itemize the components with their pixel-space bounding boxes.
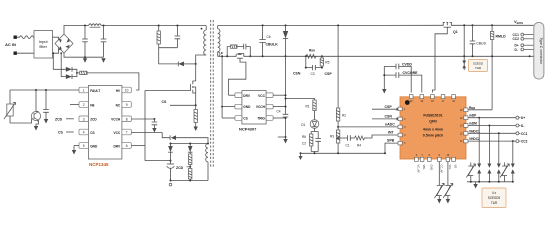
U1 pin 2 FB bbox=[70, 102, 95, 108]
svg-text:C2: C2 bbox=[302, 142, 306, 146]
svg-text:VCCH: VCCH bbox=[111, 118, 121, 122]
wire CVDD gnd bbox=[383, 66, 385, 89]
U2 label NCP4307 bbox=[239, 126, 257, 131]
connector pin D- top bbox=[515, 48, 534, 52]
label INT bbox=[388, 131, 395, 135]
svg-text:2: 2 bbox=[83, 103, 85, 107]
net label ZCD arrow bbox=[176, 166, 191, 170]
resistor R3 bbox=[330, 130, 340, 153]
diode D-clamp bbox=[178, 62, 184, 67]
ground arrow cap1 bbox=[83, 56, 87, 63]
ESD diode pair column CC2 bbox=[511, 140, 515, 182]
svg-text:R5: R5 bbox=[325, 61, 329, 65]
ground arrow C4 bbox=[283, 137, 287, 144]
FAULT line bbox=[10, 89, 79, 91]
op-amp U1 NCP1345 body bbox=[88, 86, 122, 160]
aux rectifier top wire bbox=[170, 143, 210, 162]
U1 pin 5 GND bbox=[74, 143, 98, 149]
connector circle D- bbox=[516, 124, 524, 128]
svg-text:R4: R4 bbox=[357, 144, 361, 148]
resistor R5 bbox=[315, 56, 329, 67]
varistor RV1 bbox=[435, 162, 445, 204]
wire diodes join bbox=[72, 69, 80, 76]
transistor Q2 sync MOSFET bbox=[229, 53, 248, 95]
svg-text:D-: D- bbox=[515, 48, 518, 52]
U2 pin 2 GND bbox=[221, 104, 251, 109]
svg-text:CVCORE: CVCORE bbox=[403, 71, 419, 75]
wire SPB bbox=[384, 139, 400, 155]
U3 bottom pin stubs bbox=[415, 157, 456, 161]
net label CSP bbox=[321, 67, 332, 76]
svg-text:CS: CS bbox=[162, 100, 168, 104]
gate drive wire DRV bbox=[145, 91, 191, 161]
wire transformer primary bottom to drain bbox=[196, 55, 206, 81]
wire VCC to aux diode bbox=[162, 133, 170, 138]
svg-text:T&R: T&R bbox=[491, 201, 498, 205]
svg-text:SZESD9: SZESD9 bbox=[488, 196, 501, 200]
svg-text:Q1: Q1 bbox=[453, 30, 458, 34]
ground arrow C-VCCH bbox=[152, 128, 156, 133]
svg-text:VHDC2: VHDC2 bbox=[469, 137, 480, 141]
svg-text:3: 3 bbox=[83, 118, 85, 122]
snubber C-Q2 bbox=[237, 44, 251, 58]
bulk capacitor C-in1 bbox=[82, 26, 88, 58]
svg-text:VC_AF: VC_AF bbox=[416, 165, 420, 174]
connector circle D+ bbox=[516, 116, 525, 120]
wire Q3 collector to FAULT bbox=[35, 89, 39, 112]
U2 pin 4 TRIG bbox=[257, 116, 286, 121]
svg-text:4mm x 4mm: 4mm x 4mm bbox=[423, 128, 443, 132]
ESD part box top bbox=[469, 60, 488, 72]
snubber bottom wire bbox=[159, 47, 178, 49]
opto bottom split bbox=[311, 128, 318, 131]
label C3 bbox=[311, 72, 315, 76]
bulk capacitor C-in2 bbox=[101, 26, 107, 58]
wire AC bottom to filter bbox=[17, 52, 34, 54]
snubber capacitor C-clamp bbox=[175, 26, 181, 48]
svg-text:TRIG: TRIG bbox=[257, 117, 265, 121]
resistor R2 bbox=[336, 108, 346, 130]
wire VHDC1 to CC1 bbox=[468, 129, 516, 133]
svg-text:ZCD: ZCD bbox=[90, 118, 97, 122]
NTC thermistor RT1 bbox=[4, 90, 16, 123]
VBUS rail right bbox=[454, 24, 534, 26]
wire diode column to NCP4307 bbox=[285, 56, 287, 137]
VBUS divider tap bbox=[337, 24, 339, 108]
capacitor C2 bbox=[302, 132, 321, 154]
resistor R-zcd2 bbox=[189, 167, 192, 181]
svg-text:NCP1345: NCP1345 bbox=[89, 162, 109, 167]
U3 pin numbers bbox=[404, 101, 463, 157]
svg-text:VHDC1: VHDC1 bbox=[469, 129, 480, 133]
ground arrow bus bbox=[299, 153, 303, 160]
U1 pin 10 HV bbox=[116, 87, 132, 93]
connector pin CC1 top bbox=[513, 33, 534, 37]
input filter block bbox=[34, 31, 53, 59]
wire nADC bbox=[338, 123, 400, 127]
svg-text:DRV: DRV bbox=[243, 94, 251, 98]
wire filter to bridge top bbox=[53, 37, 59, 40]
aux bottom wire bbox=[171, 180, 209, 182]
U1 pin 6 DRV bbox=[114, 143, 145, 149]
U1 pin 4 CS bbox=[79, 129, 95, 135]
fuse F1 bbox=[17, 36, 34, 39]
HV diode D2 bbox=[66, 74, 72, 79]
net label Rup bbox=[468, 106, 492, 110]
U3 top pin stubs bbox=[409, 95, 455, 99]
sense resistor R-CS bbox=[194, 105, 197, 126]
svg-text:C3: C3 bbox=[311, 72, 315, 76]
connector pin D+ top bbox=[515, 44, 534, 48]
ESD part box bottom bbox=[482, 188, 506, 208]
svg-text:CSN: CSN bbox=[293, 72, 301, 76]
HV startup resistor R-HV bbox=[80, 71, 87, 74]
diode D-aux1 bbox=[168, 143, 173, 165]
ground arrow CV caps bbox=[382, 89, 386, 94]
varistor RV4 bbox=[500, 163, 509, 182]
svg-text:CC2: CC2 bbox=[513, 37, 520, 41]
net label ZCD left bbox=[55, 117, 74, 121]
GND bus secondary bbox=[300, 152, 386, 154]
HV tap wire 1 bbox=[52, 52, 65, 69]
wire VHDC2 to CC2 bbox=[468, 137, 516, 141]
svg-text:mDM: mDM bbox=[469, 122, 477, 126]
svg-text:CS: CS bbox=[243, 117, 247, 121]
wire opto supply bbox=[285, 98, 315, 101]
transistor Q5 primary MOSFET bbox=[191, 81, 196, 105]
svg-text:D-: D- bbox=[521, 124, 524, 128]
svg-text:CBUS: CBUS bbox=[476, 41, 486, 45]
label Rsn bbox=[309, 49, 315, 53]
Type C connector J1 bbox=[534, 22, 544, 79]
svg-text:C4: C4 bbox=[277, 110, 281, 114]
wire ESD top drop bbox=[462, 24, 466, 70]
diode D-aux2 bbox=[188, 143, 193, 155]
snubber resistor R-clamp bbox=[157, 26, 160, 48]
svg-text:R6: R6 bbox=[302, 135, 306, 139]
svg-text:VBL: VBL bbox=[422, 165, 426, 170]
svg-text:VCL: VCL bbox=[448, 165, 452, 171]
U1 pin 3 ZCD bbox=[79, 116, 97, 122]
svg-text:R1: R1 bbox=[306, 105, 310, 109]
transformer T1 core bbox=[211, 20, 214, 168]
svg-text:CSP: CSP bbox=[385, 105, 393, 109]
svg-text:CC_AF: CC_AF bbox=[439, 165, 443, 174]
sense resistor Rsn bbox=[305, 54, 323, 58]
svg-text:filter: filter bbox=[39, 44, 47, 49]
svg-text:1: 1 bbox=[83, 89, 85, 93]
wire NTC to Q3 base bbox=[10, 119, 32, 124]
node bridge/cap1 bbox=[84, 25, 86, 27]
DC- rail bbox=[64, 53, 104, 57]
U1 label NCP1345 bbox=[89, 162, 109, 167]
capacitor CVDD bbox=[384, 63, 412, 93]
diode D-vcc bbox=[170, 135, 176, 140]
bridge rectifier BR1 bbox=[55, 34, 73, 53]
svg-text:CSP: CSP bbox=[325, 72, 333, 76]
wire diode to aux winding top bbox=[176, 138, 208, 144]
HV diode D1 bbox=[66, 67, 72, 72]
wire mDP to D+ bbox=[468, 114, 516, 118]
U1 pin 7 VCC bbox=[113, 129, 162, 135]
svg-text:CC1: CC1 bbox=[521, 132, 528, 136]
svg-text:SPB: SPB bbox=[387, 139, 395, 143]
U1 pin 1 FAULT bbox=[79, 87, 100, 93]
ground arrow C-fault bbox=[44, 119, 48, 124]
AC terminal top bbox=[14, 36, 17, 39]
optocoupler O1 bbox=[301, 120, 319, 129]
net label CSN bbox=[293, 67, 307, 76]
capacitor C4 bbox=[277, 110, 289, 139]
secondary VBUS rail bbox=[218, 24, 441, 26]
svg-text:NC: NC bbox=[116, 103, 121, 107]
net label CSN chip bbox=[372, 115, 400, 121]
net label CS left bbox=[58, 131, 74, 135]
U2 pin 5 VCCH bbox=[256, 104, 287, 109]
svg-text:Type C connector: Type C connector bbox=[539, 38, 543, 65]
resistor R-zcd1 bbox=[189, 154, 192, 167]
svg-text:FAULT: FAULT bbox=[90, 89, 100, 93]
svg-text:CS: CS bbox=[90, 131, 94, 135]
ESD ground bus bbox=[467, 181, 514, 183]
resistor R4 bbox=[355, 135, 401, 148]
svg-text:GND: GND bbox=[243, 105, 251, 109]
varistor RV3 bbox=[466, 163, 475, 182]
AC IN label bbox=[5, 42, 16, 47]
resistor RMLD bbox=[490, 24, 506, 110]
svg-text:VBUS: VBUS bbox=[514, 19, 523, 25]
node C1R4 tap bbox=[337, 137, 347, 139]
svg-text:R2: R2 bbox=[342, 114, 346, 118]
svg-text:9: 9 bbox=[126, 103, 128, 107]
svg-text:GND: GND bbox=[429, 165, 433, 171]
secondary GND rail left bbox=[218, 55, 233, 57]
node divider mid bbox=[337, 126, 339, 128]
U3 bottom pin labels bbox=[416, 165, 457, 174]
svg-text:CBULK: CBULK bbox=[266, 43, 279, 47]
net label CSP chip bbox=[372, 105, 400, 111]
svg-text:R3: R3 bbox=[330, 135, 334, 139]
HV tap wire 2 bbox=[60, 52, 66, 76]
op-amp U2 NCP4307 body bbox=[242, 91, 266, 125]
EMI choke L1 bbox=[89, 24, 102, 27]
node cap2 top bbox=[103, 25, 105, 27]
wire clamp to diode bbox=[159, 48, 179, 64]
svg-text:Rsn: Rsn bbox=[309, 49, 315, 53]
capacitor CBULK bbox=[259, 24, 278, 57]
ground arrow Q3 emitter bbox=[34, 121, 39, 131]
ground arrow U1 GND bbox=[72, 146, 76, 155]
wire diode to drain bbox=[184, 63, 197, 65]
capacitor C-VCCH bbox=[152, 118, 158, 128]
capacitor C1 bbox=[346, 135, 355, 147]
transistor Q3 bbox=[31, 111, 40, 122]
snubber R-Q2 bbox=[226, 45, 237, 57]
svg-text:FB: FB bbox=[90, 103, 95, 107]
svg-text:Rup: Rup bbox=[469, 106, 475, 110]
svg-text:VCC: VCC bbox=[113, 131, 120, 135]
svg-text:7: 7 bbox=[126, 131, 128, 135]
svg-text:NCP4307: NCP4307 bbox=[239, 126, 257, 131]
FUSB15101 U3 body bbox=[400, 97, 466, 159]
ground arrow R-CS bbox=[194, 127, 198, 132]
svg-text:CS: CS bbox=[58, 131, 64, 135]
wire bridge top to DC+ rail bbox=[64, 26, 85, 35]
svg-text:QFN: QFN bbox=[429, 120, 437, 124]
DC+ rail choke to transformer bbox=[101, 25, 206, 27]
connector pin CC2 top bbox=[513, 37, 534, 41]
svg-text:ZCD: ZCD bbox=[55, 117, 63, 121]
transformer T1 aux winding bbox=[206, 144, 208, 181]
varistor RV2 bbox=[443, 162, 453, 204]
label VBUS bbox=[514, 19, 523, 25]
svg-text:0.5mm pitch: 0.5mm pitch bbox=[423, 134, 443, 138]
wire filter to bridge bottom bbox=[53, 47, 59, 53]
transformer T1 secondary winding bbox=[218, 26, 223, 57]
U1 pin 8 VCCH bbox=[111, 116, 154, 122]
svg-text:SZESD: SZESD bbox=[473, 62, 484, 66]
wire CSN drop bbox=[306, 56, 313, 67]
diode D-vccs bbox=[283, 24, 288, 57]
svg-text:C1: C1 bbox=[346, 144, 350, 148]
svg-text:RMLD: RMLD bbox=[496, 35, 507, 39]
transformer T1 primary winding bbox=[201, 26, 207, 56]
svg-text:GND: GND bbox=[90, 144, 98, 148]
connector circle CC2 bbox=[516, 140, 528, 144]
svg-text:5: 5 bbox=[83, 144, 85, 148]
svg-text:CSN: CSN bbox=[385, 115, 393, 119]
svg-text:AC IN: AC IN bbox=[5, 42, 16, 47]
capacitor C3 bbox=[313, 65, 316, 70]
snubber node dots bbox=[158, 25, 179, 27]
wire mDM to D- bbox=[468, 122, 516, 126]
capacitor CVCORE bbox=[384, 71, 422, 93]
DC+ rail to choke bbox=[85, 25, 89, 27]
connector circle CC1 bbox=[516, 132, 528, 136]
U1 pin 9 NC bbox=[116, 102, 132, 108]
net label CS at sense node bbox=[162, 100, 197, 106]
svg-text:10: 10 bbox=[125, 89, 129, 93]
resistor R1 bbox=[306, 100, 317, 120]
svg-text:INT: INT bbox=[388, 131, 395, 135]
svg-text:8: 8 bbox=[126, 118, 128, 122]
U2 pin 6 VCC bbox=[258, 93, 286, 98]
svg-text:VCC: VCC bbox=[258, 94, 265, 98]
svg-text:VCCH: VCCH bbox=[256, 105, 266, 109]
ground arrow ESD bus bbox=[473, 182, 477, 189]
svg-text:mDP: mDP bbox=[469, 114, 477, 118]
svg-text:D+: D+ bbox=[521, 116, 525, 120]
svg-text:VD: VD bbox=[454, 165, 458, 169]
U3 left pin stubs bbox=[398, 107, 402, 145]
U2 pin 3 CS bbox=[221, 55, 248, 120]
capacitor C-aux electrolytic bbox=[167, 164, 175, 186]
resistor R6 bbox=[302, 132, 313, 152]
svg-text:4: 4 bbox=[83, 131, 85, 135]
svg-text:T&R: T&R bbox=[475, 66, 482, 70]
svg-text:4 x: 4 x bbox=[492, 191, 497, 195]
svg-text:CC2: CC2 bbox=[521, 140, 528, 144]
capacitor CBUS bbox=[470, 24, 487, 57]
ESD diode pair column CC1 bbox=[497, 132, 501, 182]
AC terminal bottom bbox=[14, 52, 17, 55]
svg-text:ZCD: ZCD bbox=[176, 166, 184, 170]
svg-text:FUSB15101: FUSB15101 bbox=[423, 114, 442, 118]
ground arrow cap2 bbox=[101, 58, 105, 63]
secondary GND rail bbox=[247, 55, 534, 57]
svg-text:C6: C6 bbox=[267, 35, 271, 39]
svg-text:6: 6 bbox=[126, 144, 128, 148]
capacitor C-fault bbox=[43, 89, 49, 119]
transistor Q1 load switch bbox=[432, 22, 457, 92]
svg-text:O1: O1 bbox=[301, 123, 305, 127]
svg-text:nADC: nADC bbox=[385, 123, 395, 127]
svg-text:DRV: DRV bbox=[114, 144, 122, 148]
ESD diode pair column Dp bbox=[477, 117, 481, 182]
ESD diode pair column Dm bbox=[487, 125, 491, 182]
U3 right pin stubs bbox=[464, 108, 468, 143]
U2 pin 1 DRV bbox=[229, 93, 251, 98]
wire resistor to HV pin bbox=[87, 73, 139, 90]
